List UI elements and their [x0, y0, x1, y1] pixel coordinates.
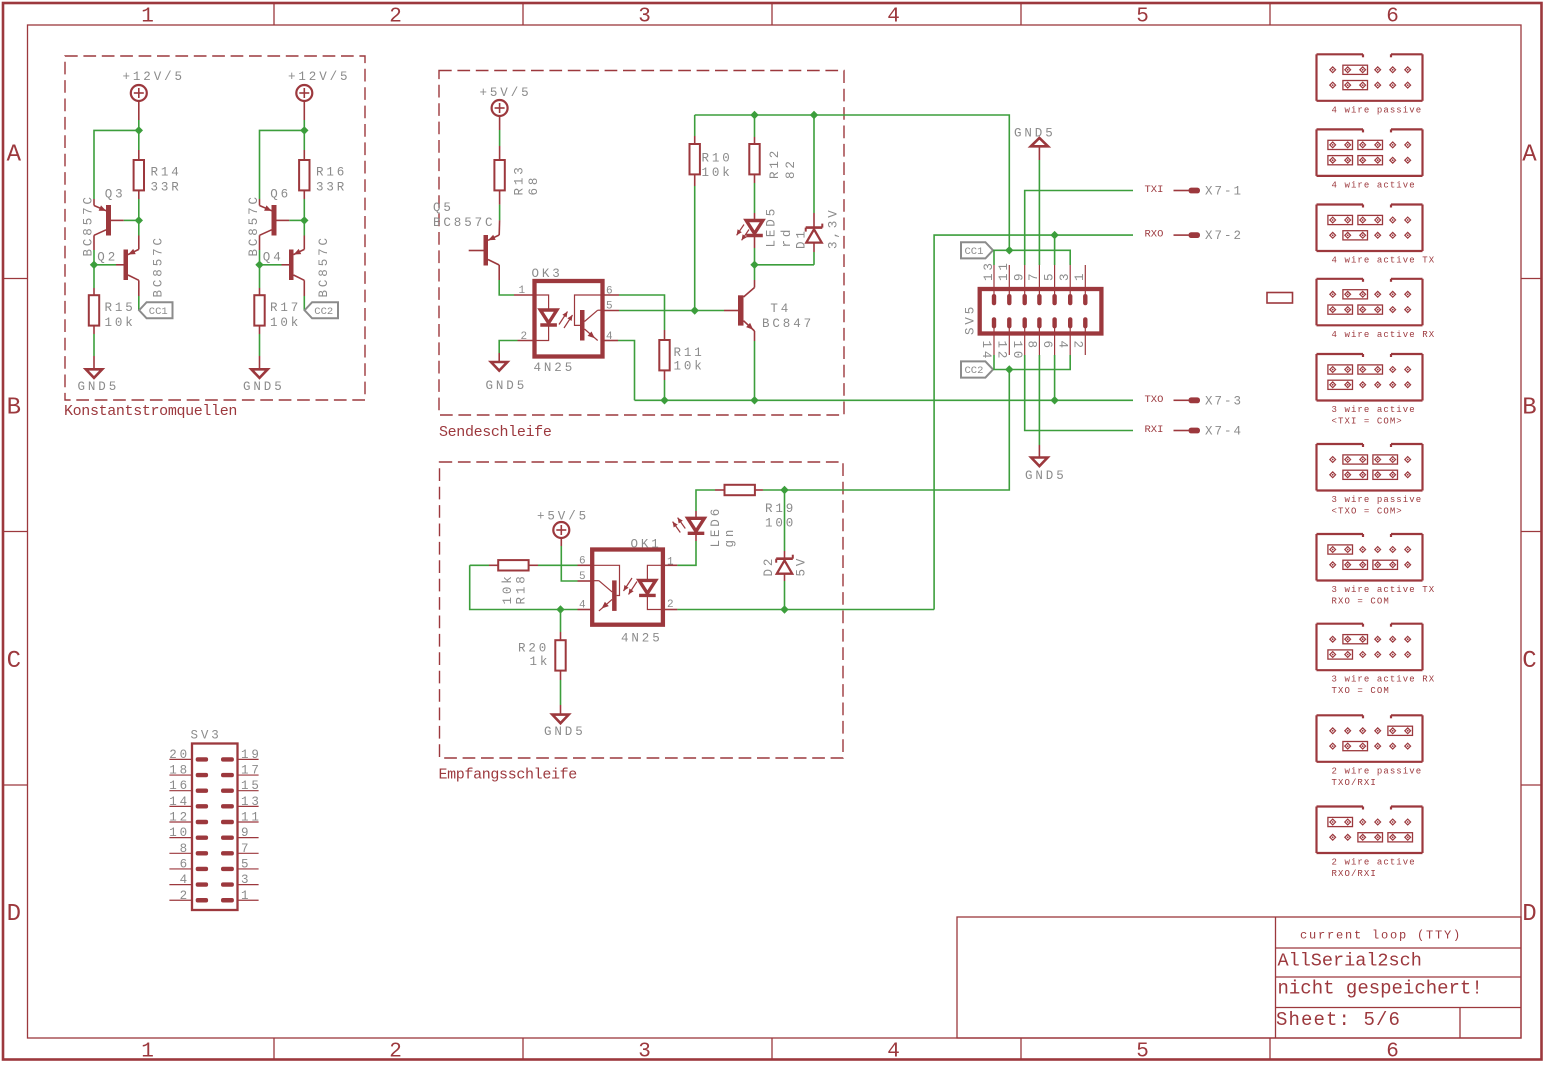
- connector SV3: [169, 729, 262, 911]
- junction node R16/Q6 base/Q4 emitter: [300, 216, 308, 224]
- frame column ticks bottom: [274, 1038, 1270, 1060]
- svg-text:4: 4: [180, 873, 190, 887]
- title block outline: [957, 917, 1521, 1038]
- section box Konstantstromquellen: [65, 56, 365, 400]
- wire T4 emitter to rail: [754, 331, 756, 400]
- svg-text:6: 6: [1040, 341, 1054, 351]
- svg-text:SV3: SV3: [191, 729, 222, 743]
- svg-text:D: D: [1522, 901, 1536, 928]
- svg-text:12: 12: [169, 811, 190, 825]
- svg-text:<TXI = COM>: <TXI = COM>: [1332, 417, 1403, 427]
- svg-text:8: 8: [180, 842, 190, 856]
- label flag CC2 at SV5: [961, 361, 993, 377]
- svg-text:2 wire active: 2 wire active: [1332, 858, 1416, 868]
- svg-text:Q3: Q3: [105, 188, 126, 202]
- svg-text:10k: 10k: [270, 316, 301, 330]
- SV5 pin numbers top 13..1: [982, 260, 1087, 281]
- jumper chart 2: 4 wire active: [1317, 129, 1423, 190]
- connector SV5 body: [980, 289, 1102, 334]
- svg-text:33R: 33R: [316, 181, 347, 195]
- resistor R16 33R: [299, 130, 347, 220]
- wire CC1 to pins 13/3: [993, 250, 1070, 265]
- junction node D1 top on rail: [810, 111, 818, 119]
- LED LED5 rd: [737, 206, 794, 248]
- svg-text:33R: 33R: [151, 181, 182, 195]
- svg-text:GND5: GND5: [544, 725, 586, 739]
- svg-text:C: C: [7, 648, 21, 675]
- svg-text:1: 1: [141, 6, 154, 29]
- svg-text:R13: R13: [513, 164, 527, 195]
- transistor Q6 BC857C: [247, 188, 291, 257]
- svg-text:Q2: Q2: [97, 251, 118, 265]
- svg-text:AllSerial2sch: AllSerial2sch: [1278, 951, 1422, 972]
- svg-text:68: 68: [527, 175, 541, 196]
- svg-text:+12V/5: +12V/5: [123, 70, 185, 84]
- svg-text:3: 3: [638, 6, 651, 29]
- svg-text:gn: gn: [723, 527, 737, 548]
- junction node CC2/pin12: [1005, 365, 1013, 373]
- connector SV5 pin lines top: [994, 265, 1085, 289]
- wire R18 left to pin4 line: [470, 565, 561, 609]
- resistor R13 68: [494, 160, 541, 196]
- supply +12V/5 (current source CC2): [288, 70, 350, 101]
- jumper chart 4: 4 wire active RX: [1317, 279, 1436, 340]
- wire OK1 pin 2 / D2 bottom to RXO riser: [663, 609, 934, 611]
- supply +5V/5 (Sendeschleife): [480, 86, 532, 116]
- wire R19 line to SV5 pin 12 (CC2 net): [785, 370, 1010, 491]
- svg-text:R20: R20: [518, 642, 549, 656]
- junction node LED5/D1/T4 collector: [750, 261, 758, 269]
- junction node CC1/pin11: [1005, 246, 1013, 254]
- wire RXO to pin 5: [1054, 235, 1056, 265]
- jumper chart 6: 3 wire passive <TXO = COM>: [1317, 444, 1423, 517]
- svg-text:2: 2: [389, 1041, 402, 1064]
- wire node to Q3 emitter: [94, 130, 139, 205]
- svg-text:RXI: RXI: [1145, 424, 1164, 436]
- label flag CC1: [139, 302, 172, 318]
- svg-text:Q5: Q5: [433, 201, 454, 215]
- svg-text:CC1: CC1: [149, 306, 168, 318]
- section box Sendeschleife: [439, 71, 844, 416]
- svg-text:R17: R17: [270, 301, 301, 315]
- label flag CC1 at SV5: [961, 242, 993, 258]
- junction node TXO/pin6: [1050, 396, 1058, 404]
- net label TXI / X7-1: [1145, 184, 1244, 199]
- wire R13 to Q5 emitter: [498, 190, 500, 235]
- junction node at supply: [300, 126, 308, 134]
- pin numbers 1 2 (OK1): [667, 557, 674, 612]
- connector SV5 pin lines bottom: [994, 334, 1085, 356]
- svg-text:GND5: GND5: [243, 380, 285, 394]
- wire node to Q2 emitter: [138, 220, 140, 249]
- wire RXI line to SV5 pin 10 / X7-4: [1025, 355, 1133, 431]
- svg-text:current loop (TTY): current loop (TTY): [1300, 929, 1462, 943]
- svg-text:GND5: GND5: [1025, 469, 1067, 483]
- section box Empfangsschleife: [440, 462, 844, 758]
- zener diode D1 3,3V: [755, 115, 841, 265]
- svg-text:20: 20: [169, 748, 190, 762]
- resistor R11 10k: [659, 340, 704, 400]
- svg-text:10: 10: [169, 826, 190, 840]
- junction node R12 top on rail: [750, 111, 758, 119]
- svg-text:4 wire passive: 4 wire passive: [1332, 105, 1423, 115]
- svg-text:1: 1: [1073, 271, 1087, 281]
- svg-text:Konstantstromquellen: Konstantstromquellen: [64, 403, 237, 420]
- transistor Q4 BC857C: [263, 235, 331, 297]
- svg-text:6: 6: [579, 556, 586, 568]
- svg-text:6: 6: [1386, 6, 1399, 29]
- svg-text:13: 13: [982, 260, 996, 281]
- svg-text:R11: R11: [674, 346, 705, 360]
- transistor Q5 BC857C: [433, 201, 499, 266]
- svg-text:R16: R16: [316, 166, 347, 180]
- wire OK3 pin 5 / R10 / T4 base net: [603, 310, 739, 312]
- svg-text:4N25: 4N25: [621, 631, 663, 645]
- jumper chart 5: 3 wire active <TXI = COM>: [1317, 354, 1423, 427]
- svg-text:10: 10: [1010, 341, 1024, 362]
- wire RXO riser and RXO line to SV5 pin 5 / X7-2: [934, 235, 1133, 609]
- svg-text:2: 2: [389, 6, 402, 29]
- svg-text:RXO/RXI: RXO/RXI: [1332, 869, 1377, 879]
- svg-text:CC1: CC1: [965, 246, 984, 258]
- svg-text:15: 15: [241, 779, 262, 793]
- svg-text:R14: R14: [151, 166, 182, 180]
- svg-text:RXO = COM: RXO = COM: [1332, 597, 1390, 607]
- svg-text:3,3V: 3,3V: [826, 207, 840, 249]
- svg-text:3: 3: [1058, 271, 1072, 281]
- wire Q4 collector to CC2: [303, 280, 305, 310]
- wire Q6 collector / Q4 base node: [260, 235, 282, 264]
- junction node RXO/pin5: [1050, 231, 1058, 239]
- svg-text:4 wire active: 4 wire active: [1332, 180, 1416, 190]
- svg-text:3 wire active: 3 wire active: [1332, 405, 1416, 415]
- svg-text:Q6: Q6: [270, 188, 291, 202]
- junction node Q2 base: [90, 261, 98, 269]
- junction node at supply: [135, 126, 143, 134]
- wire T4 collector to node: [754, 265, 756, 288]
- svg-text:R10: R10: [702, 152, 733, 166]
- jumper chart 8: 3 wire active RX TXO = COM: [1317, 624, 1436, 697]
- wire Q3 base to node: [124, 219, 139, 221]
- svg-text:14: 14: [169, 795, 190, 809]
- frame row ticks left: [3, 279, 28, 786]
- svg-text:R18: R18: [515, 573, 529, 604]
- svg-text:+12V/5: +12V/5: [288, 70, 350, 84]
- svg-text:1k: 1k: [530, 655, 551, 669]
- wire CC2 to pins 14/4: [993, 355, 1070, 370]
- svg-text:9: 9: [241, 826, 251, 840]
- ground GND5 above SV5: [1014, 127, 1056, 266]
- svg-text:TXO = COM: TXO = COM: [1332, 686, 1390, 696]
- svg-text:10k: 10k: [702, 166, 733, 180]
- svg-text:TXO: TXO: [1145, 394, 1164, 406]
- svg-text:TXO/RXI: TXO/RXI: [1332, 778, 1377, 788]
- svg-text:100: 100: [765, 517, 796, 531]
- jumper chart 10: 2 wire active RXO/RXI: [1317, 807, 1423, 880]
- svg-text:BC857C: BC857C: [152, 235, 166, 297]
- junction node R14/Q3 base/Q2 emitter: [135, 216, 143, 224]
- svg-text:7: 7: [1027, 271, 1041, 281]
- net label RXI / X7-4: [1145, 424, 1244, 439]
- svg-text:C: C: [1522, 648, 1536, 675]
- svg-text:5: 5: [241, 857, 251, 871]
- svg-text:17: 17: [241, 764, 262, 778]
- wire top rail (LED/D1 net) to SV5 pin 11: [695, 115, 1010, 250]
- svg-text:GND5: GND5: [78, 380, 120, 394]
- wire OK3 pin 2 to ground: [499, 341, 534, 363]
- wire emitter rail (TXO net) to SV5 and X7-3: [635, 399, 1134, 401]
- svg-text:<TXO = COM>: <TXO = COM>: [1332, 507, 1403, 517]
- resistor R20 1k: [518, 610, 566, 715]
- svg-text:Q4: Q4: [263, 251, 284, 265]
- svg-text:11: 11: [997, 260, 1011, 281]
- svg-text:Empfangsschleife: Empfangsschleife: [439, 767, 578, 784]
- svg-text:10k: 10k: [105, 316, 136, 330]
- svg-text:GND5: GND5: [1014, 127, 1056, 141]
- junction node T4 emitter on rail: [750, 396, 758, 404]
- svg-text:7: 7: [241, 842, 251, 856]
- LED LED6 gn: [673, 506, 737, 548]
- jumper chart 9: 2 wire passive TXO/RXI: [1317, 715, 1423, 788]
- svg-text:19: 19: [241, 748, 262, 762]
- svg-text:3: 3: [638, 1041, 651, 1064]
- resistor R12 82: [749, 115, 798, 221]
- svg-text:BC847: BC847: [762, 317, 814, 331]
- svg-text:GND5: GND5: [486, 379, 528, 393]
- svg-text:6: 6: [180, 857, 190, 871]
- svg-text:4: 4: [887, 1041, 900, 1064]
- wire LED5 cathode to node: [754, 237, 756, 265]
- svg-text:X7-2: X7-2: [1205, 229, 1243, 243]
- svg-text:1: 1: [519, 285, 526, 297]
- jumper chart 3: 4 wire active TX: [1317, 205, 1436, 266]
- frame column ticks top: [274, 3, 1270, 25]
- resistor R15 10k: [89, 265, 136, 370]
- jumper chart 1: 4 wire passive: [1317, 54, 1423, 115]
- svg-text:D: D: [7, 901, 21, 928]
- svg-text:1: 1: [667, 557, 674, 569]
- svg-text:5V: 5V: [795, 556, 809, 577]
- junction node Q4 base: [255, 261, 263, 269]
- svg-text:10k: 10k: [674, 359, 705, 373]
- svg-text:BC857C: BC857C: [433, 216, 495, 230]
- svg-text:TXI: TXI: [1145, 184, 1164, 196]
- svg-text:X7-3: X7-3: [1205, 394, 1243, 408]
- transistor T4 BC847: [738, 288, 814, 332]
- svg-text:11: 11: [241, 811, 262, 825]
- svg-text:4 wire active TX: 4 wire active TX: [1332, 256, 1436, 266]
- ground GND5 (Sendeschleife): [486, 362, 528, 393]
- svg-text:1: 1: [241, 889, 251, 903]
- svg-text:R12: R12: [768, 148, 782, 179]
- wire node to Q6 emitter: [260, 130, 305, 205]
- svg-text:5: 5: [1136, 6, 1149, 29]
- svg-text:8: 8: [1025, 341, 1039, 351]
- svg-text:B: B: [1522, 395, 1536, 422]
- svg-text:3 wire active TX: 3 wire active TX: [1332, 585, 1436, 595]
- wire TXI line to SV5 pin 9 / X7-1: [1025, 191, 1133, 266]
- junction node R20 top: [556, 605, 564, 613]
- svg-text:nicht gespeichert!: nicht gespeichert!: [1278, 978, 1483, 1000]
- svg-text:BC857C: BC857C: [317, 235, 331, 297]
- wire +5V/5 to R13: [499, 116, 501, 160]
- net label RXO / X7-2: [1145, 229, 1244, 244]
- SV5 pin numbers bottom 14..2: [979, 341, 1084, 362]
- svg-text:OK1: OK1: [631, 538, 662, 552]
- optocoupler OK1 4N25: [592, 538, 663, 646]
- svg-text:5: 5: [1136, 1041, 1149, 1064]
- svg-text:2 wire passive: 2 wire passive: [1332, 766, 1423, 776]
- svg-text:SV5: SV5: [964, 304, 978, 335]
- svg-text:CC2: CC2: [965, 365, 984, 377]
- resistor R14 33R: [134, 130, 182, 220]
- svg-text:4N25: 4N25: [534, 361, 576, 375]
- svg-text:A: A: [7, 141, 22, 168]
- transistor Q3 BC857C: [82, 188, 126, 257]
- unplaced part frame glyph: [1267, 293, 1293, 304]
- wire Q2 collector to CC1: [138, 280, 140, 310]
- svg-text:2: 2: [1071, 341, 1085, 351]
- svg-text:3 wire passive: 3 wire passive: [1332, 495, 1423, 505]
- svg-text:1: 1: [141, 1041, 154, 1064]
- svg-text:14: 14: [979, 341, 993, 362]
- svg-text:4: 4: [1055, 341, 1069, 351]
- net label TXO / X7-3: [1145, 394, 1244, 409]
- svg-text:RXO: RXO: [1145, 229, 1164, 241]
- transistor Q2 BC857C: [97, 235, 165, 297]
- svg-text:5: 5: [1042, 271, 1056, 281]
- ground GND5 under R20: [544, 715, 586, 739]
- junction node R10 bottom / pin5 line: [691, 306, 699, 314]
- ground GND5 under R15: [78, 369, 120, 394]
- svg-text:3: 3: [241, 873, 251, 887]
- svg-text:X7-4: X7-4: [1205, 425, 1243, 439]
- wire +12V/5 to node: [138, 101, 140, 131]
- svg-text:OK3: OK3: [532, 267, 563, 281]
- resistor R18 10k: [470, 560, 593, 604]
- svg-text:R19: R19: [765, 502, 796, 516]
- label flag CC2: [305, 302, 338, 318]
- svg-text:B: B: [7, 395, 21, 422]
- resistor R10 10k: [690, 115, 733, 311]
- frame row ticks right: [1521, 279, 1542, 786]
- junction node R19 / D2 top: [780, 486, 788, 494]
- wire OK1 pin 4 to node: [561, 609, 593, 611]
- svg-text:X7-1: X7-1: [1205, 185, 1243, 199]
- svg-text:+5V/5: +5V/5: [480, 86, 532, 100]
- svg-text:13: 13: [241, 795, 262, 809]
- svg-text:9: 9: [1013, 271, 1027, 281]
- svg-text:A: A: [1522, 141, 1537, 168]
- svg-text:3 wire active RX: 3 wire active RX: [1332, 675, 1436, 685]
- wire Q6 base to node: [289, 219, 304, 221]
- svg-text:6: 6: [1386, 1041, 1399, 1064]
- svg-text:D1: D1: [794, 228, 808, 249]
- svg-text:16: 16: [169, 779, 190, 793]
- resistor R17 10k: [254, 265, 301, 370]
- svg-text:10k: 10k: [501, 573, 515, 604]
- svg-text:R15: R15: [105, 301, 136, 315]
- svg-text:Sheet: 5/6: Sheet: 5/6: [1276, 1009, 1401, 1031]
- svg-text:2: 2: [180, 889, 190, 903]
- svg-text:rd: rd: [780, 227, 794, 248]
- svg-text:LED6: LED6: [709, 506, 723, 548]
- wire node to Q4 emitter: [303, 220, 305, 249]
- jumper chart 7: 3 wire active TX RXO = COM: [1317, 534, 1436, 607]
- wire OK3 pin 6 to R11 top: [603, 295, 665, 340]
- svg-text:+5V/5: +5V/5: [537, 510, 589, 524]
- wire +5V/5 to OK1 pin 5: [561, 538, 592, 581]
- supply +12V/5 (current source CC1): [123, 70, 185, 101]
- svg-text:82: 82: [784, 158, 798, 179]
- svg-text:CC2: CC2: [314, 306, 333, 318]
- wire TXO to pin 6: [1054, 355, 1056, 400]
- ground GND5 below SV5: [1025, 355, 1067, 483]
- svg-text:18: 18: [169, 764, 190, 778]
- junction node R11 bottom on rail: [660, 396, 668, 404]
- wire Q3 collector / Q2 base node: [94, 235, 116, 264]
- zener diode D2 5V: [762, 490, 809, 610]
- wire +12V/5 to node: [303, 101, 305, 131]
- svg-text:LED5: LED5: [765, 206, 779, 248]
- resistor R19 100: [715, 485, 796, 531]
- supply +5V/5 (Empfangsschleife): [537, 510, 589, 539]
- svg-text:T4: T4: [770, 302, 791, 316]
- junction node D2 bottom: [780, 605, 788, 613]
- wire OK3 pin 4 down to emitter rail: [603, 341, 635, 401]
- svg-text:5: 5: [579, 571, 586, 583]
- wire LED6 anode up to R19 line: [696, 490, 715, 518]
- optocoupler OK3 4N25: [532, 267, 603, 375]
- wire OK1 pin 1 to LED6: [663, 535, 696, 565]
- ground GND5 under R17: [243, 369, 285, 394]
- pin numbers 6 5 4 (OK3): [606, 286, 613, 344]
- wire Q5 collector to OK3 pin 1: [499, 265, 534, 295]
- pin numbers 6 5 4 (OK1): [579, 556, 586, 612]
- svg-text:4: 4: [887, 6, 900, 29]
- svg-text:Sendeschleife: Sendeschleife: [439, 424, 552, 441]
- svg-text:4 wire active RX: 4 wire active RX: [1332, 330, 1436, 340]
- svg-text:12: 12: [995, 341, 1009, 362]
- svg-text:D2: D2: [762, 556, 776, 577]
